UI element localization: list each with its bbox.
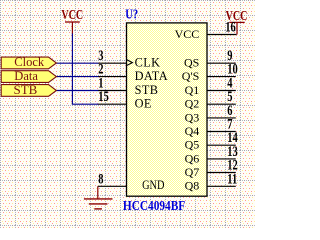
svg-text:Q3: Q3 — [185, 110, 200, 124]
svg-text:GND: GND — [142, 179, 164, 192]
svg-text:OE: OE — [135, 97, 152, 111]
svg-text:Q4: Q4 — [185, 124, 200, 138]
svg-text:U?: U? — [125, 6, 138, 22]
svg-text:Q8: Q8 — [185, 179, 200, 193]
svg-text:Q5: Q5 — [185, 138, 200, 152]
svg-text:Q'S: Q'S — [182, 69, 200, 83]
svg-text:Data: Data — [14, 69, 38, 83]
svg-text:15: 15 — [98, 87, 108, 104]
svg-text:VCC: VCC — [61, 7, 83, 23]
svg-text:Q6: Q6 — [185, 151, 200, 165]
svg-text:Q2: Q2 — [185, 97, 200, 111]
svg-text:STB: STB — [14, 82, 38, 97]
svg-text:8: 8 — [98, 169, 104, 186]
svg-text:STB: STB — [135, 83, 159, 97]
svg-text:Q1: Q1 — [185, 83, 200, 97]
svg-text:HCC4094BF: HCC4094BF — [123, 198, 185, 213]
svg-text:Q7: Q7 — [185, 165, 200, 179]
svg-text:16: 16 — [225, 18, 236, 35]
svg-text:11: 11 — [227, 169, 237, 186]
svg-text:Clock: Clock — [14, 55, 45, 69]
svg-text:VCC: VCC — [175, 27, 200, 41]
svg-text:DATA: DATA — [135, 69, 168, 83]
svg-text:QS: QS — [184, 56, 199, 70]
svg-text:CLK: CLK — [135, 55, 161, 69]
